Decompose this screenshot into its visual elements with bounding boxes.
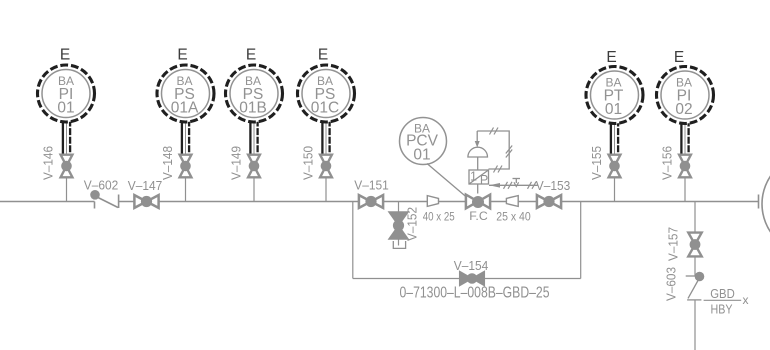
wire V-152 to drain xyxy=(398,239,400,246)
svg-text:01: 01 xyxy=(57,99,74,116)
svg-text:01: 01 xyxy=(605,101,622,118)
wire main process line left segment xyxy=(0,201,95,203)
instrument signal stem (electrical) xyxy=(611,117,618,154)
instrument bubble PS 01B xyxy=(226,65,283,122)
valve PCV body (F.C) xyxy=(466,195,490,209)
valve V-156 xyxy=(679,155,691,178)
svg-text:V–152: V–152 xyxy=(405,207,420,241)
instrument bubble PS 01C xyxy=(298,65,355,122)
svg-text:V–150: V–150 xyxy=(301,146,316,180)
wire branch to main line xyxy=(325,178,327,202)
reducer 40x25 xyxy=(427,196,438,207)
svg-text:V–156: V–156 xyxy=(660,146,675,180)
instrument bubble PT 01 xyxy=(586,67,643,124)
svg-text:V–602: V–602 xyxy=(84,178,119,193)
drain funnel bracket xyxy=(393,241,405,248)
wire branch to main line xyxy=(253,178,255,202)
wire valve stem to positioner xyxy=(477,184,479,194)
valve V-602 (line blind with ball) xyxy=(90,190,118,209)
valve V-148 xyxy=(180,155,192,178)
svg-text:01A: 01A xyxy=(171,99,199,116)
air supply signal line with arrow xyxy=(489,182,538,189)
svg-text:E: E xyxy=(606,49,616,66)
svg-text:V–146: V–146 xyxy=(41,146,56,180)
instrument bubble PCV 01 xyxy=(400,118,447,165)
instrument signal stem (electrical) xyxy=(63,117,70,154)
air supply tap symbol xyxy=(513,179,521,187)
svg-text:x: x xyxy=(743,293,749,307)
svg-text:1: 1 xyxy=(470,170,477,184)
svg-text:GBD: GBD xyxy=(710,286,735,301)
actuator diaphragm dome xyxy=(468,147,488,157)
svg-text:0–71300–L–008B–GBD–25: 0–71300–L–008B–GBD–25 xyxy=(400,285,550,302)
svg-text:V–153: V–153 xyxy=(536,178,571,193)
wire V-157 to V-603 xyxy=(694,258,696,277)
valve V-153 xyxy=(537,195,561,208)
instrument bubble PI 02 xyxy=(657,67,714,124)
svg-text:40 x 25: 40 x 25 xyxy=(423,210,455,224)
wire bypass left vertical xyxy=(352,202,354,279)
svg-text:E: E xyxy=(246,47,256,64)
svg-text:V–148: V–148 xyxy=(160,146,175,180)
wire branch to main line xyxy=(614,178,616,202)
wire bypass bottom horizontal xyxy=(353,278,581,280)
wire main process line right segment xyxy=(119,201,759,203)
wire branch down from main line xyxy=(694,202,696,232)
valve V-157 xyxy=(688,233,701,257)
svg-text:E: E xyxy=(60,47,70,64)
wire branch to V-152 xyxy=(398,202,400,213)
flange tick at right end of main line xyxy=(758,195,760,209)
valve V-150 xyxy=(320,155,332,178)
valve V-151 xyxy=(359,195,383,208)
svg-text:V–603: V–603 xyxy=(664,267,679,301)
svg-text:01C: 01C xyxy=(311,99,339,116)
svg-text:01B: 01B xyxy=(239,99,267,116)
svg-text:V–157: V–157 xyxy=(666,227,681,261)
valve V-154 (closed, filled) xyxy=(460,272,485,286)
positioner I/P box xyxy=(469,170,489,187)
svg-text:V–154: V–154 xyxy=(454,258,489,273)
svg-text:P: P xyxy=(480,173,488,187)
instrument signal stem (electrical) xyxy=(182,117,189,154)
svg-text:V–149: V–149 xyxy=(229,146,244,180)
svg-text:V–155: V–155 xyxy=(589,146,604,180)
wire to bottom edge xyxy=(694,300,696,350)
instrument signal stem (electrical) xyxy=(322,117,329,154)
valve V-603 (line blind with ball) xyxy=(686,272,705,300)
destination note GBD/HBY xyxy=(704,286,749,317)
pneumatic signal loop xyxy=(477,128,512,173)
svg-text:01: 01 xyxy=(413,147,430,164)
svg-text:E: E xyxy=(674,49,684,66)
valve V-146 xyxy=(61,155,73,178)
wire positioner to actuator xyxy=(477,157,479,170)
equipment nozzle arc at right edge xyxy=(762,154,770,254)
svg-text:HBY: HBY xyxy=(711,302,733,317)
instrument signal stem (electrical) xyxy=(681,117,688,154)
instrument bubble PI 01 xyxy=(38,65,95,122)
valve V-149 xyxy=(248,155,260,178)
svg-text:V–147: V–147 xyxy=(128,178,163,193)
svg-text:25 x 40: 25 x 40 xyxy=(496,210,531,224)
svg-text:E: E xyxy=(177,47,187,64)
wire branch to main line xyxy=(66,178,68,202)
wire branch to main line xyxy=(185,178,187,202)
wire bypass right vertical xyxy=(580,202,582,279)
svg-text:E: E xyxy=(318,47,328,64)
leader line from PCV 01 to valve xyxy=(427,164,467,198)
reducer 25x40 xyxy=(506,196,518,207)
valve V-155 xyxy=(609,155,621,178)
instrument signal stem (electrical) xyxy=(250,117,257,154)
instrument bubble PS 01A xyxy=(157,65,214,122)
valve V-147 (gate valve with ball) xyxy=(134,195,158,208)
valve V-152 (closed, filled) xyxy=(389,212,408,239)
svg-text:02: 02 xyxy=(675,101,692,118)
wire branch to main line xyxy=(684,178,686,202)
svg-text:F.C: F.C xyxy=(469,209,488,223)
svg-text:V–151: V–151 xyxy=(354,178,389,193)
signal arrow onto dome xyxy=(475,131,480,148)
